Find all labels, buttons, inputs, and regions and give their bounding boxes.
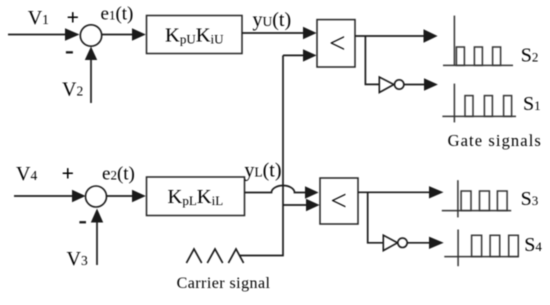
svg-text:V1: V1 (28, 7, 49, 29)
svg-text:Gate signals: Gate signals (448, 131, 542, 150)
svg-text:S2: S2 (521, 45, 539, 67)
svg-text:V4: V4 (16, 163, 37, 185)
svg-text:+: + (67, 5, 80, 30)
svg-text:S1: S1 (523, 93, 541, 115)
svg-text:yL(t): yL(t) (244, 160, 281, 182)
svg-text:e1(t): e1(t) (101, 4, 134, 25)
svg-text:V3: V3 (67, 248, 88, 270)
svg-text:V2: V2 (62, 79, 83, 101)
svg-text:yU(t): yU(t) (253, 9, 292, 31)
svg-text:S3: S3 (521, 188, 539, 210)
svg-text:Carrier signal: Carrier signal (177, 275, 271, 292)
svg-text:<: < (331, 185, 347, 217)
svg-text:+: + (62, 160, 75, 185)
svg-text:<: < (329, 28, 345, 60)
svg-text:e2(t): e2(t) (102, 164, 135, 185)
svg-text:S4: S4 (524, 234, 542, 256)
